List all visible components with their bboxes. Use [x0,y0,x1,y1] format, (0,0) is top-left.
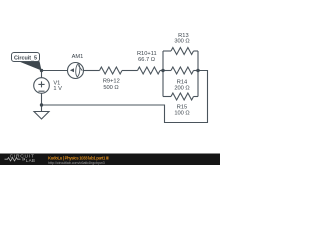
svg-text:KudoLu | Physics 1033 lab1 par: KudoLu | Physics 1033 lab1 part1 III [48,155,109,160]
svg-text:100 Ω: 100 Ω [174,111,189,117]
svg-text:200 Ω: 200 Ω [174,86,189,92]
svg-text:66.7 Ω: 66.7 Ω [138,57,155,63]
svg-text:LAB: LAB [26,158,35,163]
svg-text:300 Ω: 300 Ω [174,38,189,44]
svg-text:R14: R14 [177,79,187,85]
svg-text:R15: R15 [177,104,187,110]
svg-text:1 V: 1 V [53,86,62,92]
svg-text:500 Ω: 500 Ω [103,85,118,91]
svg-text:http://circuitlab.com/c6atk4hg: http://circuitlab.com/c6atk4hgcbpw3 [48,161,105,165]
svg-text:AM1: AM1 [72,54,84,60]
svg-text:R9+12: R9+12 [103,78,120,84]
svg-text:Circuit_5: Circuit_5 [14,56,37,62]
